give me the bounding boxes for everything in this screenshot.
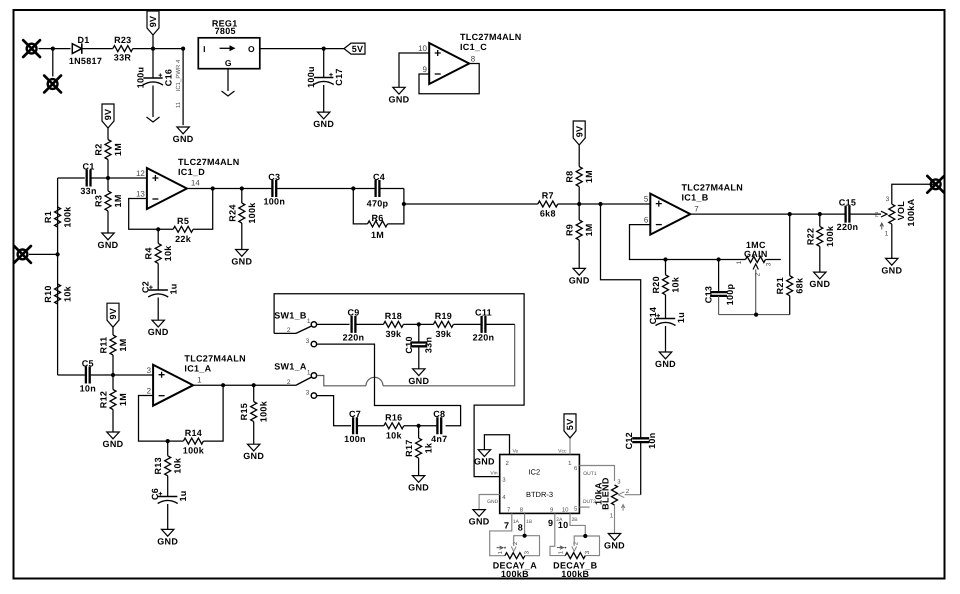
node junction [106, 176, 110, 180]
svg-text:5V: 5V [352, 44, 364, 54]
svg-text:4n7: 4n7 [431, 434, 447, 444]
resistor R3 1M [107, 178, 109, 191]
svg-text:100kA: 100kA [906, 198, 916, 226]
svg-text:7: 7 [694, 205, 699, 214]
svg-text:100k: 100k [247, 202, 257, 224]
svg-text:2: 2 [147, 387, 152, 396]
node junction [417, 424, 421, 428]
svg-text:1M: 1M [113, 194, 123, 207]
node junction [151, 47, 155, 51]
resistor R8 1M [573, 121, 585, 145]
svg-text:GND: GND [157, 536, 178, 546]
capacitor C16 100u [152, 49, 154, 78]
svg-text:100p: 100p [725, 283, 735, 305]
wire pin8 stub [524, 513, 526, 535]
svg-text:GND: GND [98, 240, 119, 250]
svg-text:GND: GND [243, 451, 264, 461]
resistor R21 68k [789, 214, 791, 276]
svg-text:C3: C3 [268, 172, 280, 182]
svg-text:R11: R11 [99, 337, 109, 354]
svg-text:C11: C11 [475, 308, 492, 318]
svg-text:220n: 220n [837, 222, 859, 232]
wire [53, 48, 71, 50]
wire SW1_A pin1 to C11 [317, 376, 366, 386]
svg-text:470p: 470p [367, 199, 389, 209]
resistor R5 22k [173, 226, 193, 232]
supply flag 9V [147, 11, 159, 35]
svg-text:10k: 10k [386, 430, 403, 440]
svg-text:GND: GND [604, 541, 625, 551]
wire pin7 to DECAY_A [490, 513, 512, 555]
svg-text:3: 3 [886, 196, 890, 203]
svg-text:GND: GND [103, 439, 124, 449]
node junction [56, 252, 60, 256]
resistor R13 10k [167, 441, 169, 456]
svg-text:100k: 100k [63, 206, 73, 228]
ground GND [412, 476, 424, 483]
svg-text:R24: R24 [227, 204, 237, 221]
svg-text:IC1_D: IC1_D [178, 167, 205, 177]
wire [666, 259, 719, 261]
wire [892, 184, 936, 204]
svg-text:100kB: 100kB [561, 569, 589, 579]
wire [404, 425, 438, 427]
svg-text:10n: 10n [647, 432, 657, 448]
ground GND [659, 352, 671, 359]
resistor R24 100k [241, 189, 243, 204]
wire blend pin1 [614, 505, 616, 534]
wire [133, 48, 153, 50]
wire left rail [57, 178, 59, 375]
wire gain pin3 stub [766, 259, 781, 261]
node junction [211, 186, 215, 190]
pin 6 OUT1 to BLEND [579, 466, 614, 482]
svg-text:C10: C10 [404, 336, 414, 353]
wire [849, 213, 881, 215]
svg-text:IC1_A: IC1_A [184, 364, 211, 374]
svg-text:100k: 100k [825, 225, 835, 247]
svg-text:10: 10 [558, 520, 569, 530]
svg-text:C5: C5 [82, 358, 94, 368]
node junction [663, 257, 667, 261]
resistor R22 100k [819, 214, 821, 226]
wire pin9 to DECAY_B [550, 513, 565, 555]
capacitor C8 4n7 [437, 417, 441, 434]
svg-text:GND: GND [469, 517, 490, 527]
wire [485, 323, 514, 325]
capacitor C13 100p [718, 260, 720, 293]
capacitor C14 1u [656, 318, 675, 320]
svg-text:C6: C6 [150, 488, 160, 500]
wire [203, 385, 223, 441]
wire [58, 177, 85, 179]
svg-text:6: 6 [644, 216, 649, 225]
ground GND [152, 320, 164, 327]
wire [276, 188, 353, 190]
op-amp U IC1_B TLC27M4ALN [650, 194, 690, 235]
wire gain wiper [755, 270, 757, 315]
svg-text:Vcc: Vcc [558, 448, 567, 454]
wire [324, 48, 344, 50]
wire SW1_B common net [274, 294, 524, 477]
svg-text:GND: GND [408, 376, 429, 386]
regulator REG1 7805 [198, 38, 259, 69]
diode D1 1N5817 [72, 44, 82, 54]
capacitor C9 220n [352, 316, 356, 333]
wire [404, 203, 538, 205]
svg-text:R13: R13 [153, 457, 163, 474]
svg-text:VOL: VOL [896, 201, 906, 221]
svg-text:100kB: 100kB [501, 569, 529, 579]
svg-text:GND: GND [809, 279, 830, 289]
svg-text:R6: R6 [371, 213, 383, 223]
node junction [598, 202, 602, 206]
ground GND [393, 87, 405, 94]
svg-text:9: 9 [548, 518, 553, 528]
svg-text:9V: 9V [103, 109, 113, 121]
svg-text:22k: 22k [175, 234, 192, 244]
resistor R15 100k [253, 385, 255, 401]
wire [168, 440, 184, 442]
svg-text:1u: 1u [178, 490, 188, 501]
wire blend wiper to C12 [625, 494, 641, 496]
wire [254, 384, 296, 386]
svg-text:100n: 100n [344, 434, 366, 444]
svg-text:220n: 220n [473, 332, 495, 342]
svg-text:R19: R19 [435, 311, 452, 321]
svg-text:3: 3 [147, 366, 152, 375]
resistor R4 10k [157, 229, 159, 243]
wire pin9 feedback [419, 64, 479, 94]
wire feedback loop [630, 225, 666, 260]
svg-text:10k: 10k [671, 276, 681, 293]
node junction [523, 534, 527, 538]
ground GND [177, 127, 189, 134]
svg-text:1M: 1M [584, 223, 594, 236]
node junction [156, 227, 160, 231]
node junction [51, 47, 55, 51]
svg-text:TLC27M4ALN: TLC27M4ALN [460, 32, 522, 42]
wire to C12 branch [601, 204, 641, 437]
resistor R9 1M [578, 204, 580, 220]
wire [193, 189, 213, 230]
svg-text:14: 14 [191, 179, 200, 188]
node junction [221, 383, 225, 387]
resistor R23 33R [113, 46, 133, 52]
svg-text:GND: GND [569, 275, 590, 285]
svg-text:7805: 7805 [215, 26, 236, 36]
svg-text:11: 11 [175, 101, 182, 108]
op-amp U IC1_C TLC27M4ALN [429, 43, 469, 84]
svg-text:SW1_A: SW1_A [274, 362, 307, 372]
wire feedback [139, 396, 168, 442]
svg-text:BTDR-3: BTDR-3 [526, 490, 553, 499]
resistor R14 100k [183, 438, 203, 444]
connector X3 [14, 246, 31, 263]
ground arrow [147, 117, 160, 122]
wire [242, 188, 273, 190]
svg-text:IC1_B: IC1_B [682, 193, 709, 203]
resistor R20 10k [665, 260, 667, 275]
wire SW1_A pin3 to C7 [317, 396, 351, 426]
capacitor C17 100u [323, 49, 325, 78]
svg-text:O: O [248, 44, 255, 54]
resistor R11 1M [107, 303, 119, 327]
node junction [818, 212, 822, 216]
connector X4 [927, 176, 944, 193]
svg-text:GND: GND [231, 257, 252, 267]
connector X1 [23, 40, 40, 57]
potentiometer DECAY_B 100kB [565, 553, 585, 559]
wire DECAY_B wiper net [574, 536, 599, 556]
svg-text:1: 1 [885, 230, 889, 237]
svg-text:1: 1 [307, 369, 311, 376]
wire [213, 188, 242, 190]
svg-text:C9: C9 [347, 308, 359, 318]
op-amp U IC1_A TLC27M4ALN [153, 365, 193, 406]
svg-text:5: 5 [644, 195, 649, 204]
svg-text:R18: R18 [385, 311, 402, 321]
svg-text:IC1_C: IC1_C [460, 42, 487, 52]
node junction [111, 373, 115, 377]
potentiometer BLEND 10kA [612, 485, 618, 505]
svg-text:6k8: 6k8 [540, 208, 556, 218]
svg-text:100u: 100u [306, 66, 316, 88]
svg-text:2: 2 [287, 327, 291, 334]
ground arrow [222, 91, 235, 96]
svg-text:2B: 2B [572, 517, 579, 523]
svg-text:R8: R8 [565, 171, 575, 183]
ground GND [608, 534, 620, 541]
ground GND [318, 112, 330, 119]
connector X2 [44, 76, 61, 93]
wire [558, 203, 579, 205]
wire output [187, 188, 213, 190]
ground GND [478, 450, 490, 457]
ground GND [248, 444, 260, 451]
svg-text:3: 3 [306, 389, 310, 396]
svg-text:TLC27M4ALN: TLC27M4ALN [178, 157, 240, 167]
svg-text:C7: C7 [349, 409, 361, 419]
svg-text:R20: R20 [651, 276, 661, 293]
wire [227, 69, 229, 91]
svg-text:SW1_B: SW1_B [274, 311, 307, 321]
supply flag 5V [344, 43, 365, 54]
node junction [322, 47, 326, 51]
wire [108, 177, 147, 179]
svg-text:3: 3 [766, 262, 773, 266]
svg-text:Vin: Vin [490, 470, 497, 476]
wire [29, 253, 58, 255]
svg-text:R1: R1 [43, 211, 53, 223]
wire SW1_B pin3 to C8 [317, 344, 461, 426]
ground GND [886, 258, 898, 265]
svg-text:1M: 1M [584, 170, 594, 183]
resistor R19 39k [433, 321, 453, 327]
svg-text:R5: R5 [177, 216, 189, 226]
resistor R17 1k [418, 426, 420, 438]
svg-text:R21: R21 [775, 277, 785, 294]
capacitor C2 1u [149, 289, 168, 291]
svg-text:R9: R9 [565, 224, 575, 236]
svg-text:33n: 33n [424, 337, 434, 353]
wire [260, 48, 324, 50]
ground GND [573, 268, 585, 275]
svg-text:33R: 33R [114, 53, 132, 63]
node junction [717, 257, 721, 261]
svg-text:10: 10 [562, 507, 569, 514]
potentiometer GAIN 1MC [746, 257, 766, 263]
svg-text:GND: GND [389, 94, 410, 104]
node junction [577, 202, 581, 206]
svg-text:GND: GND [655, 359, 676, 369]
svg-text:1M: 1M [371, 230, 384, 240]
node junction [351, 186, 355, 190]
resistor R7 6k8 [538, 201, 558, 207]
svg-text:R12: R12 [99, 391, 109, 408]
svg-text:100k: 100k [183, 446, 205, 456]
ground GND [102, 233, 114, 240]
svg-text:1u: 1u [169, 283, 179, 294]
svg-text:R23: R23 [114, 35, 131, 45]
svg-text:GND: GND [487, 499, 499, 505]
node junction [417, 322, 421, 326]
svg-text:R4: R4 [144, 247, 154, 259]
wire [152, 35, 154, 49]
ground GND [162, 529, 174, 536]
capacitor C15 220n [846, 206, 850, 223]
svg-text:GAIN: GAIN [744, 249, 768, 259]
wire [640, 442, 642, 495]
svg-text:1M: 1M [113, 143, 123, 156]
node junction [240, 186, 244, 190]
svg-text:GND: GND [474, 457, 495, 467]
svg-text:1: 1 [307, 318, 311, 325]
svg-text:R7: R7 [542, 191, 554, 201]
node junction [166, 439, 170, 443]
svg-text:C16: C16 [164, 69, 174, 86]
svg-text:68k: 68k [795, 277, 805, 294]
svg-text:R14: R14 [185, 428, 202, 438]
wire [113, 374, 153, 376]
svg-text:R15: R15 [239, 403, 249, 420]
svg-text:1M: 1M [118, 393, 128, 406]
wire feedback [129, 199, 173, 230]
svg-text:I: I [203, 44, 206, 54]
svg-text:8: 8 [518, 523, 523, 533]
wire [579, 203, 600, 205]
resistor R18 39k [383, 321, 403, 327]
svg-text:100n: 100n [263, 197, 285, 207]
wire C4 R6 loop [353, 188, 375, 190]
wire output [690, 213, 845, 215]
svg-text:C2: C2 [141, 281, 151, 293]
svg-text:C12: C12 [624, 432, 634, 449]
svg-text:R2: R2 [94, 143, 104, 155]
wire output [193, 384, 254, 386]
svg-text:OUT1: OUT1 [583, 471, 597, 477]
svg-text:39k: 39k [385, 329, 402, 339]
op-amp U IC1_D TLC27M4ALN [147, 168, 187, 209]
resistor R10 10k [55, 284, 61, 304]
svg-text:GND: GND [313, 119, 334, 129]
pin 4 GND [479, 495, 500, 510]
svg-text:1N5817: 1N5817 [69, 56, 102, 66]
resistor R1 100k [55, 207, 61, 227]
wire [58, 374, 85, 376]
svg-text:33n: 33n [80, 186, 96, 196]
svg-text:1: 1 [197, 376, 202, 385]
svg-text:C13: C13 [704, 286, 714, 303]
wire [357, 425, 384, 427]
node junction [754, 313, 758, 317]
wire [52, 49, 54, 77]
svg-text:1u: 1u [676, 312, 686, 323]
wire pin10 net [570, 513, 585, 536]
wire pin10 [399, 53, 429, 87]
wire [91, 374, 113, 376]
wire [153, 48, 183, 50]
wire [91, 177, 109, 179]
svg-text:3: 3 [306, 338, 310, 345]
svg-text:9V: 9V [148, 16, 158, 28]
wire bottom of gain loop [719, 314, 790, 316]
svg-text:12: 12 [136, 169, 145, 178]
potentiometer VOL 100kA [881, 211, 887, 217]
svg-text:2: 2 [287, 379, 291, 386]
svg-text:10k: 10k [163, 245, 173, 262]
svg-text:10k: 10k [173, 457, 183, 474]
capacitor C4 470p [376, 180, 380, 197]
wire [403, 323, 433, 325]
IC IC2 BTDR-3 [500, 455, 580, 514]
svg-text:220n: 220n [343, 332, 365, 342]
svg-text:TLC27M4ALN: TLC27M4ALN [682, 183, 744, 193]
node junction [402, 202, 406, 206]
node junction [788, 212, 792, 216]
svg-text:10k: 10k [63, 285, 73, 302]
svg-text:GND: GND [881, 265, 902, 275]
capacitor C3 100n [272, 180, 276, 197]
wire [719, 259, 746, 261]
svg-text:100u: 100u [136, 67, 146, 89]
svg-text:8: 8 [471, 55, 476, 64]
wire IC1_PWR [182, 49, 184, 126]
svg-text:GND: GND [173, 134, 194, 144]
svg-text:R17: R17 [404, 439, 414, 456]
svg-text:39k: 39k [435, 329, 452, 339]
wire [453, 323, 481, 325]
ground GND [814, 272, 826, 279]
pin 5 OUT2 stub [579, 506, 589, 508]
pin 2 Ve loop to GND [484, 435, 509, 455]
svg-text:1B: 1B [526, 519, 533, 525]
svg-text:IC2: IC2 [528, 467, 540, 476]
capacitor C6 1u [158, 496, 177, 498]
svg-text:10n: 10n [80, 384, 96, 394]
svg-text:C17: C17 [334, 68, 344, 85]
wire [82, 48, 113, 50]
svg-text:10: 10 [418, 44, 427, 53]
svg-text:IC1_PWR 4: IC1_PWR 4 [175, 59, 182, 91]
node junction [181, 47, 185, 51]
wire DECAY_A wiper net [514, 536, 540, 556]
svg-text:R10: R10 [43, 285, 53, 302]
svg-text:GND: GND [148, 327, 169, 337]
svg-text:9V: 9V [574, 126, 584, 138]
svg-text:100k: 100k [259, 400, 269, 422]
capacitor C12 10n [640, 437, 642, 438]
